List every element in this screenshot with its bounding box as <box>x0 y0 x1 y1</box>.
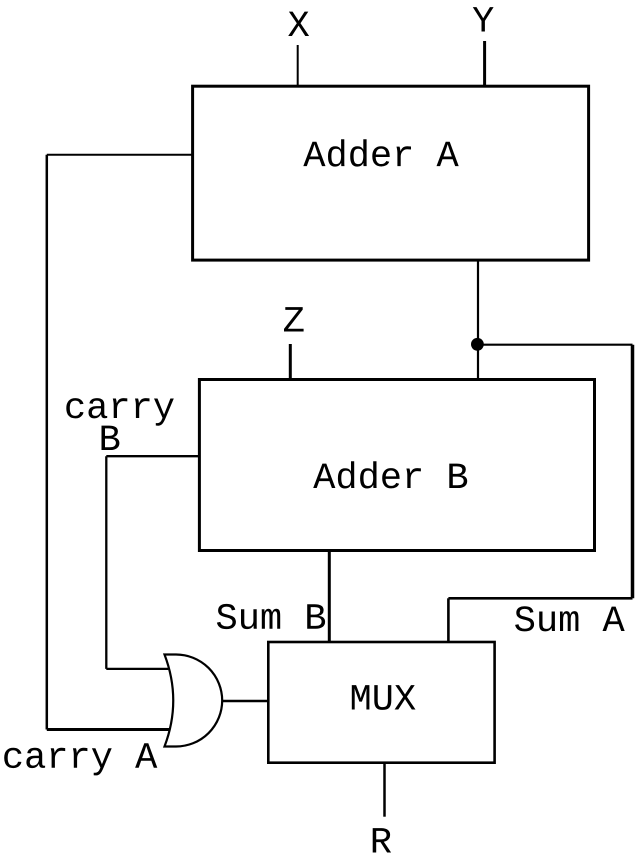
junction dot <box>471 338 484 351</box>
label B <box>102 426 120 450</box>
wire MUX output R <box>383 763 386 817</box>
wire carry A left vertical <box>46 155 49 730</box>
label R <box>373 828 391 852</box>
or-gate U1 <box>165 655 223 747</box>
label carry A <box>4 743 157 775</box>
wire input Y <box>483 41 486 86</box>
wire or-gate output to MUX <box>222 700 268 703</box>
wire Sum A horizontal <box>448 597 632 600</box>
wire Sum A into MUX <box>447 598 450 642</box>
label carry <box>66 398 174 426</box>
block Adder B <box>199 380 594 551</box>
wire carry B to or-gate top input <box>106 668 168 670</box>
wire input Z <box>289 344 292 379</box>
wire Adder A left horizontal carry A <box>47 154 193 156</box>
label Y <box>473 7 494 31</box>
label Adder B <box>313 461 467 488</box>
wire Sum B Adder B to MUX <box>328 550 331 642</box>
label MUX <box>352 685 416 710</box>
label Sum A <box>515 606 625 631</box>
wire input X <box>297 45 299 86</box>
block MUX <box>268 642 494 763</box>
wire junction to right <box>478 344 633 346</box>
wire Adder A output to Adder B <box>477 260 479 380</box>
wire carry A bottom horizontal to or-gate <box>47 728 170 731</box>
label Z <box>284 307 304 331</box>
wire right vertical Sum A <box>631 345 635 599</box>
label Adder A <box>303 139 458 166</box>
label X <box>288 12 309 36</box>
wire carry B vertical <box>105 456 107 669</box>
wire carry B from Adder B <box>106 455 199 457</box>
label Sum B <box>217 604 325 629</box>
block Adder A <box>193 86 589 260</box>
